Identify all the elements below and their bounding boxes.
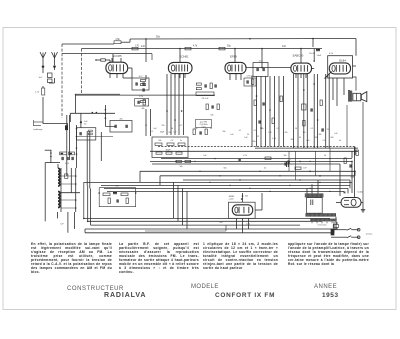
- svg-text:4,7k 50k: 4,7k 50k: [246, 76, 253, 78]
- resistor R1 antenna: [35, 88, 45, 95]
- wire V5 input arrow: [325, 72, 332, 80]
- wire left verticals: [67, 115, 102, 188]
- cluster 4,7k mid-left: [60, 152, 78, 165]
- wire bottom bus 4: [85, 228, 336, 230]
- svg-text:25: 25: [247, 134, 249, 136]
- resistor 1,5k on HT feed: [114, 39, 121, 44]
- power transformer filament winding: [310, 219, 336, 222]
- loudspeaker: [353, 92, 367, 102]
- tube V4 EABC80: [291, 53, 312, 73]
- tube V3 EF89: [225, 55, 246, 74]
- wire V6 connections: [219, 193, 262, 233]
- wire bus y148 right: [255, 147, 358, 149]
- cluster right of bus: [344, 150, 358, 179]
- wire bus y185: [101, 184, 350, 186]
- labels bundle bottom row: [257, 128, 288, 140]
- svg-text:4,7k: 4,7k: [272, 138, 276, 140]
- grid capacitor V1: [95, 59, 110, 63]
- detector labels row: [193, 128, 212, 135]
- wire bus y171: [140, 170, 355, 172]
- speckle labels row right: [244, 137, 341, 143]
- tone corrector network: [98, 184, 136, 206]
- svg-text:0,1: 0,1: [151, 131, 154, 133]
- svg-text:490pF: 490pF: [165, 150, 171, 152]
- svg-text:4,7: 4,7: [239, 130, 242, 132]
- FM tuner shield box: [62, 44, 152, 118]
- ground PSU: [361, 203, 365, 213]
- caption CONFORT IX FM: [215, 292, 275, 299]
- paragraph column 4: [288, 242, 369, 266]
- power transformer secondary winding: [305, 213, 336, 216]
- node grid junction: [80, 113, 88, 127]
- coil rungs: [61, 176, 76, 208]
- svg-text:ECC85: ECC85: [112, 54, 121, 58]
- svg-text:EABC80: EABC80: [293, 53, 304, 57]
- wire bundle detector AF: [252, 76, 284, 147]
- svg-text:50: 50: [145, 125, 147, 127]
- wire bus y191: [107, 190, 344, 192]
- svg-text:0,1: 0,1: [254, 130, 257, 132]
- antenna FM dipole 2: [52, 52, 58, 68]
- power transformer primary winding: [305, 193, 324, 197]
- svg-text:50: 50: [210, 128, 212, 130]
- tuning indicator box: [229, 202, 256, 218]
- antenna FM dipole 1: [40, 52, 46, 68]
- svg-text:ECH81: ECH81: [179, 54, 188, 58]
- wire PSU risers: [307, 147, 354, 194]
- svg-text:50: 50: [324, 155, 326, 157]
- wire bus y164: [152, 163, 340, 165]
- svg-text:4,7: 4,7: [180, 125, 183, 127]
- svg-text:20k: 20k: [168, 132, 171, 134]
- wire V4 pins: [296, 68, 314, 78]
- svg-text:bobinage: bobinage: [34, 129, 44, 131]
- svg-text:4,7k: 4,7k: [139, 96, 143, 98]
- label 170 on screen bus: [135, 46, 140, 48]
- IF can MF4 ratio detector: [253, 60, 268, 76]
- label 50+50: [309, 50, 320, 55]
- tube V7 EZ80 rectifier: [336, 191, 363, 207]
- coil L2 antenna: [58, 192, 60, 208]
- svg-text:50k: 50k: [222, 131, 225, 133]
- wire bottom mid: [145, 225, 226, 231]
- components on bus y162: [175, 158, 321, 176]
- svg-text:50nF: 50nF: [317, 55, 322, 57]
- wire bundle below V2: [166, 74, 183, 135]
- mains switch upper: [331, 228, 360, 231]
- svg-text:1,7k: 1,7k: [35, 92, 39, 94]
- svg-text:2x: 2x: [180, 140, 182, 142]
- svg-text:50k: 50k: [245, 196, 248, 198]
- tube V6 EM85: [232, 205, 252, 215]
- svg-text:4,7: 4,7: [289, 159, 292, 161]
- label 50k top: [156, 37, 161, 39]
- svg-text:1nF: 1nF: [141, 46, 146, 48]
- resistor under V3: [244, 76, 256, 86]
- wire AM line y113: [70, 112, 115, 122]
- svg-text:50: 50: [171, 128, 173, 130]
- mains filter capacitor: [331, 222, 339, 235]
- wire bus y146 ticked: [158, 146, 355, 148]
- svg-text:50k: 50k: [223, 168, 226, 170]
- wire staircase verticals: [140, 171, 187, 229]
- svg-text:10,7: 10,7: [259, 60, 263, 62]
- caption CONSTRUCTEUR: [67, 286, 124, 292]
- cluster below V3 right: [206, 104, 219, 117]
- wire bus y176: [160, 175, 355, 177]
- cluster AF coupling: [254, 96, 282, 124]
- paragraph column 1: [31, 242, 112, 274]
- wire antenna leads: [43, 67, 68, 128]
- svg-text:4,7k: 4,7k: [243, 155, 247, 157]
- node bobinage: [34, 120, 44, 131]
- output transformer: [348, 91, 352, 102]
- label EM85: [229, 196, 235, 201]
- svg-text:20k: 20k: [290, 139, 293, 141]
- svg-text:0,1: 0,1: [311, 128, 314, 130]
- svg-text:25k: 25k: [161, 125, 164, 127]
- wire bus y188: [104, 187, 348, 189]
- svg-text:EF89: EF89: [230, 55, 237, 59]
- wire bundle below V4: [294, 74, 330, 148]
- capacitor C2 small: [65, 126, 67, 130]
- volume control box: [152, 137, 188, 158]
- svg-text:50k: 50k: [179, 166, 182, 168]
- wire bottom bus 3: [91, 224, 300, 226]
- svg-text:2nF: 2nF: [282, 46, 287, 48]
- svg-text:5k: 5k: [339, 140, 341, 142]
- svg-text:50+50: 50+50: [309, 53, 316, 55]
- wire MF drop verticals: [146, 109, 151, 136]
- caption MODELE: [191, 284, 219, 290]
- svg-text:repos: repos: [201, 126, 206, 128]
- coil frame wiring: [58, 168, 81, 218]
- svg-text:secteur: secteur: [366, 232, 373, 235]
- labels under V3 row2: [222, 130, 256, 136]
- cluster mid bus: [265, 157, 301, 170]
- FM box inner corner: [75, 94, 120, 113]
- svg-text:50: 50: [299, 137, 301, 139]
- capacitor C1 antenna input: [39, 73, 52, 83]
- svg-text:47k 1nF: 47k 1nF: [202, 98, 210, 100]
- cluster below MF1: [135, 96, 149, 106]
- svg-text:0 110 220: 0 110 220: [318, 224, 328, 226]
- svg-text:40k: 40k: [141, 108, 144, 110]
- svg-text:50k: 50k: [260, 128, 263, 130]
- caption 1953: [322, 292, 339, 299]
- label 4,7k near EL84: [329, 53, 334, 55]
- svg-text:cadre: cadre: [229, 198, 234, 201]
- wire HT bus top: [62, 38, 356, 56]
- svg-text:0,5: 0,5: [277, 128, 280, 130]
- wire V3 pins: [230, 74, 241, 80]
- svg-text:50µ: 50µ: [227, 46, 232, 48]
- speckle labels row left: [145, 125, 182, 134]
- wire bottom bus 5: [85, 232, 334, 234]
- capacitor 1nF on screen bus: [132, 46, 146, 50]
- wire V2 pins: [175, 74, 185, 78]
- svg-text:50k: 50k: [318, 134, 321, 136]
- svg-text:25: 25: [264, 168, 266, 170]
- bus zone speckle: [194, 148, 330, 192]
- svg-text:2M: 2M: [315, 137, 318, 139]
- IF can MF2 AM: [77, 128, 114, 140]
- wire screen bus: [81, 48, 322, 68]
- mains switch lower: [331, 232, 373, 238]
- tube V1 ECC85: [106, 54, 128, 73]
- cluster below V4: [295, 100, 339, 136]
- svg-text:50k: 50k: [158, 140, 161, 142]
- cluster below V3 left: [196, 83, 216, 100]
- cluster left of V2: [141, 39, 147, 111]
- svg-text:4,7k: 4,7k: [246, 224, 250, 226]
- IF can MF3: [110, 118, 132, 132]
- svg-text:50k: 50k: [210, 115, 213, 117]
- svg-text:Rot: Rot: [116, 184, 119, 187]
- wire right risers: [334, 147, 355, 233]
- wire bus y161: [150, 160, 352, 162]
- svg-text:0,1: 0,1: [323, 140, 326, 142]
- capacitor 50u on screen bus: [219, 46, 232, 50]
- power transformer core: [307, 198, 323, 214]
- svg-text:10k: 10k: [252, 141, 255, 143]
- svg-text:1M: 1M: [303, 132, 306, 134]
- wire AVC line: [75, 94, 215, 96]
- wire bus y182: [98, 181, 352, 183]
- svg-text:50: 50: [295, 128, 297, 130]
- wire bottom bus 1: [84, 217, 330, 219]
- coil L1 oscillator: [58, 164, 60, 186]
- svg-text:25: 25: [327, 129, 329, 131]
- svg-text:50k: 50k: [330, 137, 333, 139]
- tube V2 ECH81: [168, 54, 192, 73]
- svg-text:fusible: fusible: [358, 192, 363, 194]
- wire V1 pins: [110, 54, 132, 78]
- wire speaker feed: [348, 66, 356, 91]
- wire vertical x105: [105, 105, 115, 126]
- wire V4 top vertical: [313, 49, 322, 62]
- wire AM switch riser: [45, 150, 60, 221]
- paragraph column 2: [119, 242, 199, 274]
- IF transformer MF1: [128, 68, 149, 90]
- caption ANNEE: [314, 284, 337, 290]
- wire left risers: [83, 182, 98, 232]
- wire coil to bottom: [60, 212, 74, 233]
- wire bus y151: [150, 150, 358, 152]
- paragraph column 3: [203, 242, 278, 270]
- wire bus y158: [161, 158, 352, 160]
- wire V3 plate to V4: [246, 67, 291, 69]
- wire bus y180: [183, 179, 350, 181]
- wire bottom bus 2: [88, 220, 322, 222]
- svg-text:47k: 47k: [284, 132, 287, 134]
- output stage box: [328, 56, 353, 78]
- labels above volume box: [160, 132, 177, 134]
- label block 21,4 MHz: [196, 120, 212, 129]
- svg-text:25: 25: [257, 136, 259, 138]
- label 2nF top: [282, 46, 287, 48]
- svg-text:EL84: EL84: [339, 58, 346, 62]
- resistor 4,7k on screen bus: [185, 46, 198, 50]
- wire speaker return: [362, 102, 364, 203]
- caption RADIALVA: [104, 292, 146, 299]
- tube V5 EL84: [329, 58, 350, 74]
- wire EL84 screen down: [333, 78, 347, 147]
- transformer taps 0 110 220: [312, 222, 332, 227]
- svg-text:10k: 10k: [283, 155, 286, 157]
